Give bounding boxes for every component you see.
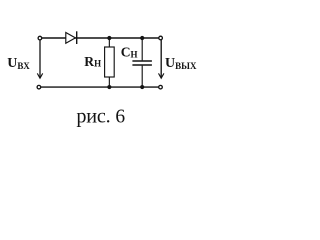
- wire top horizontal: [40, 37, 161, 39]
- node junction top of CH: [140, 36, 144, 40]
- wire resistor top stub: [108, 38, 110, 47]
- svg-text:6: 6: [115, 107, 125, 128]
- wire right vertical (output): [160, 38, 162, 78]
- arrow output voltage direction: [159, 73, 164, 78]
- resistor RH body: [105, 47, 115, 77]
- svg-text:CН: CН: [121, 45, 138, 60]
- node junction bottom of RH: [107, 85, 111, 89]
- svg-text:RН: RН: [84, 54, 101, 69]
- wire left vertical (input): [39, 38, 41, 78]
- terminal input bottom: [37, 85, 41, 89]
- node junction top of RH: [107, 36, 111, 40]
- terminal output bottom: [159, 85, 163, 89]
- wire capacitor top stub: [141, 38, 143, 60]
- terminal input top: [38, 36, 42, 40]
- capacitor CH plates: [132, 61, 152, 65]
- svg-text:рис.: рис.: [76, 105, 110, 127]
- wire capacitor bottom stub: [141, 66, 143, 88]
- node junction bottom of CH: [140, 85, 144, 89]
- svg-text:UВХ: UВХ: [7, 56, 30, 71]
- terminal output top: [159, 36, 163, 40]
- wire bottom horizontal: [39, 86, 161, 88]
- wire resistor bottom stub: [108, 77, 110, 87]
- svg-text:UВЫХ: UВЫХ: [165, 56, 197, 71]
- arrow input voltage direction: [37, 73, 42, 78]
- diode VD1: [66, 31, 77, 44]
